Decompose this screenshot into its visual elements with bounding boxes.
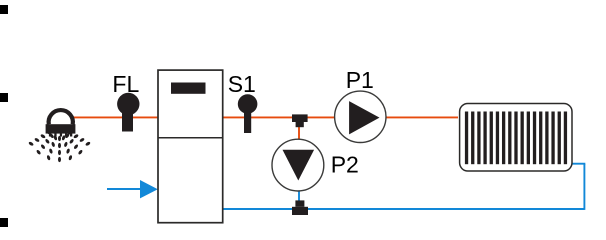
wire: blue return pipe bottom run [223,208,585,210]
tank (buffer cylinder) [158,70,223,223]
svg-text:S1: S1 [228,71,256,97]
wire: blue inlet line with arrow into tank [107,188,142,190]
radiator [460,104,572,172]
svg-text:FL: FL [112,71,139,97]
sensor FL [117,93,139,132]
svg-text:P2: P2 [331,152,359,178]
wire: blue drop from pump P2 to bottom tee [298,189,300,205]
pump P2 [272,139,324,191]
wire: orange pipe from tank to radiator (passes under T and P1) [222,116,458,118]
pump P1 [335,91,386,142]
wire: orange drop from tee to pump P2 [298,118,300,141]
shower head [46,110,76,136]
left-edge capture-handle mark (top) [0,5,8,14]
wire: blue return pipe right riser [583,164,585,210]
shower spray droplets [28,130,91,162]
wire: blue stub from radiator to riser [572,163,585,165]
left-edge capture-handle mark (middle) [0,93,8,102]
tee fitting on return pipe below P2 [292,200,308,215]
svg-text:P1: P1 [346,67,374,93]
tee fitting on supply pipe [292,114,308,127]
sensor S1 [238,94,258,133]
wire: orange supply pipe from shower to tank [71,116,158,118]
left-edge capture-handle mark (bottom) [0,218,8,227]
tank heater element bar [171,83,206,94]
